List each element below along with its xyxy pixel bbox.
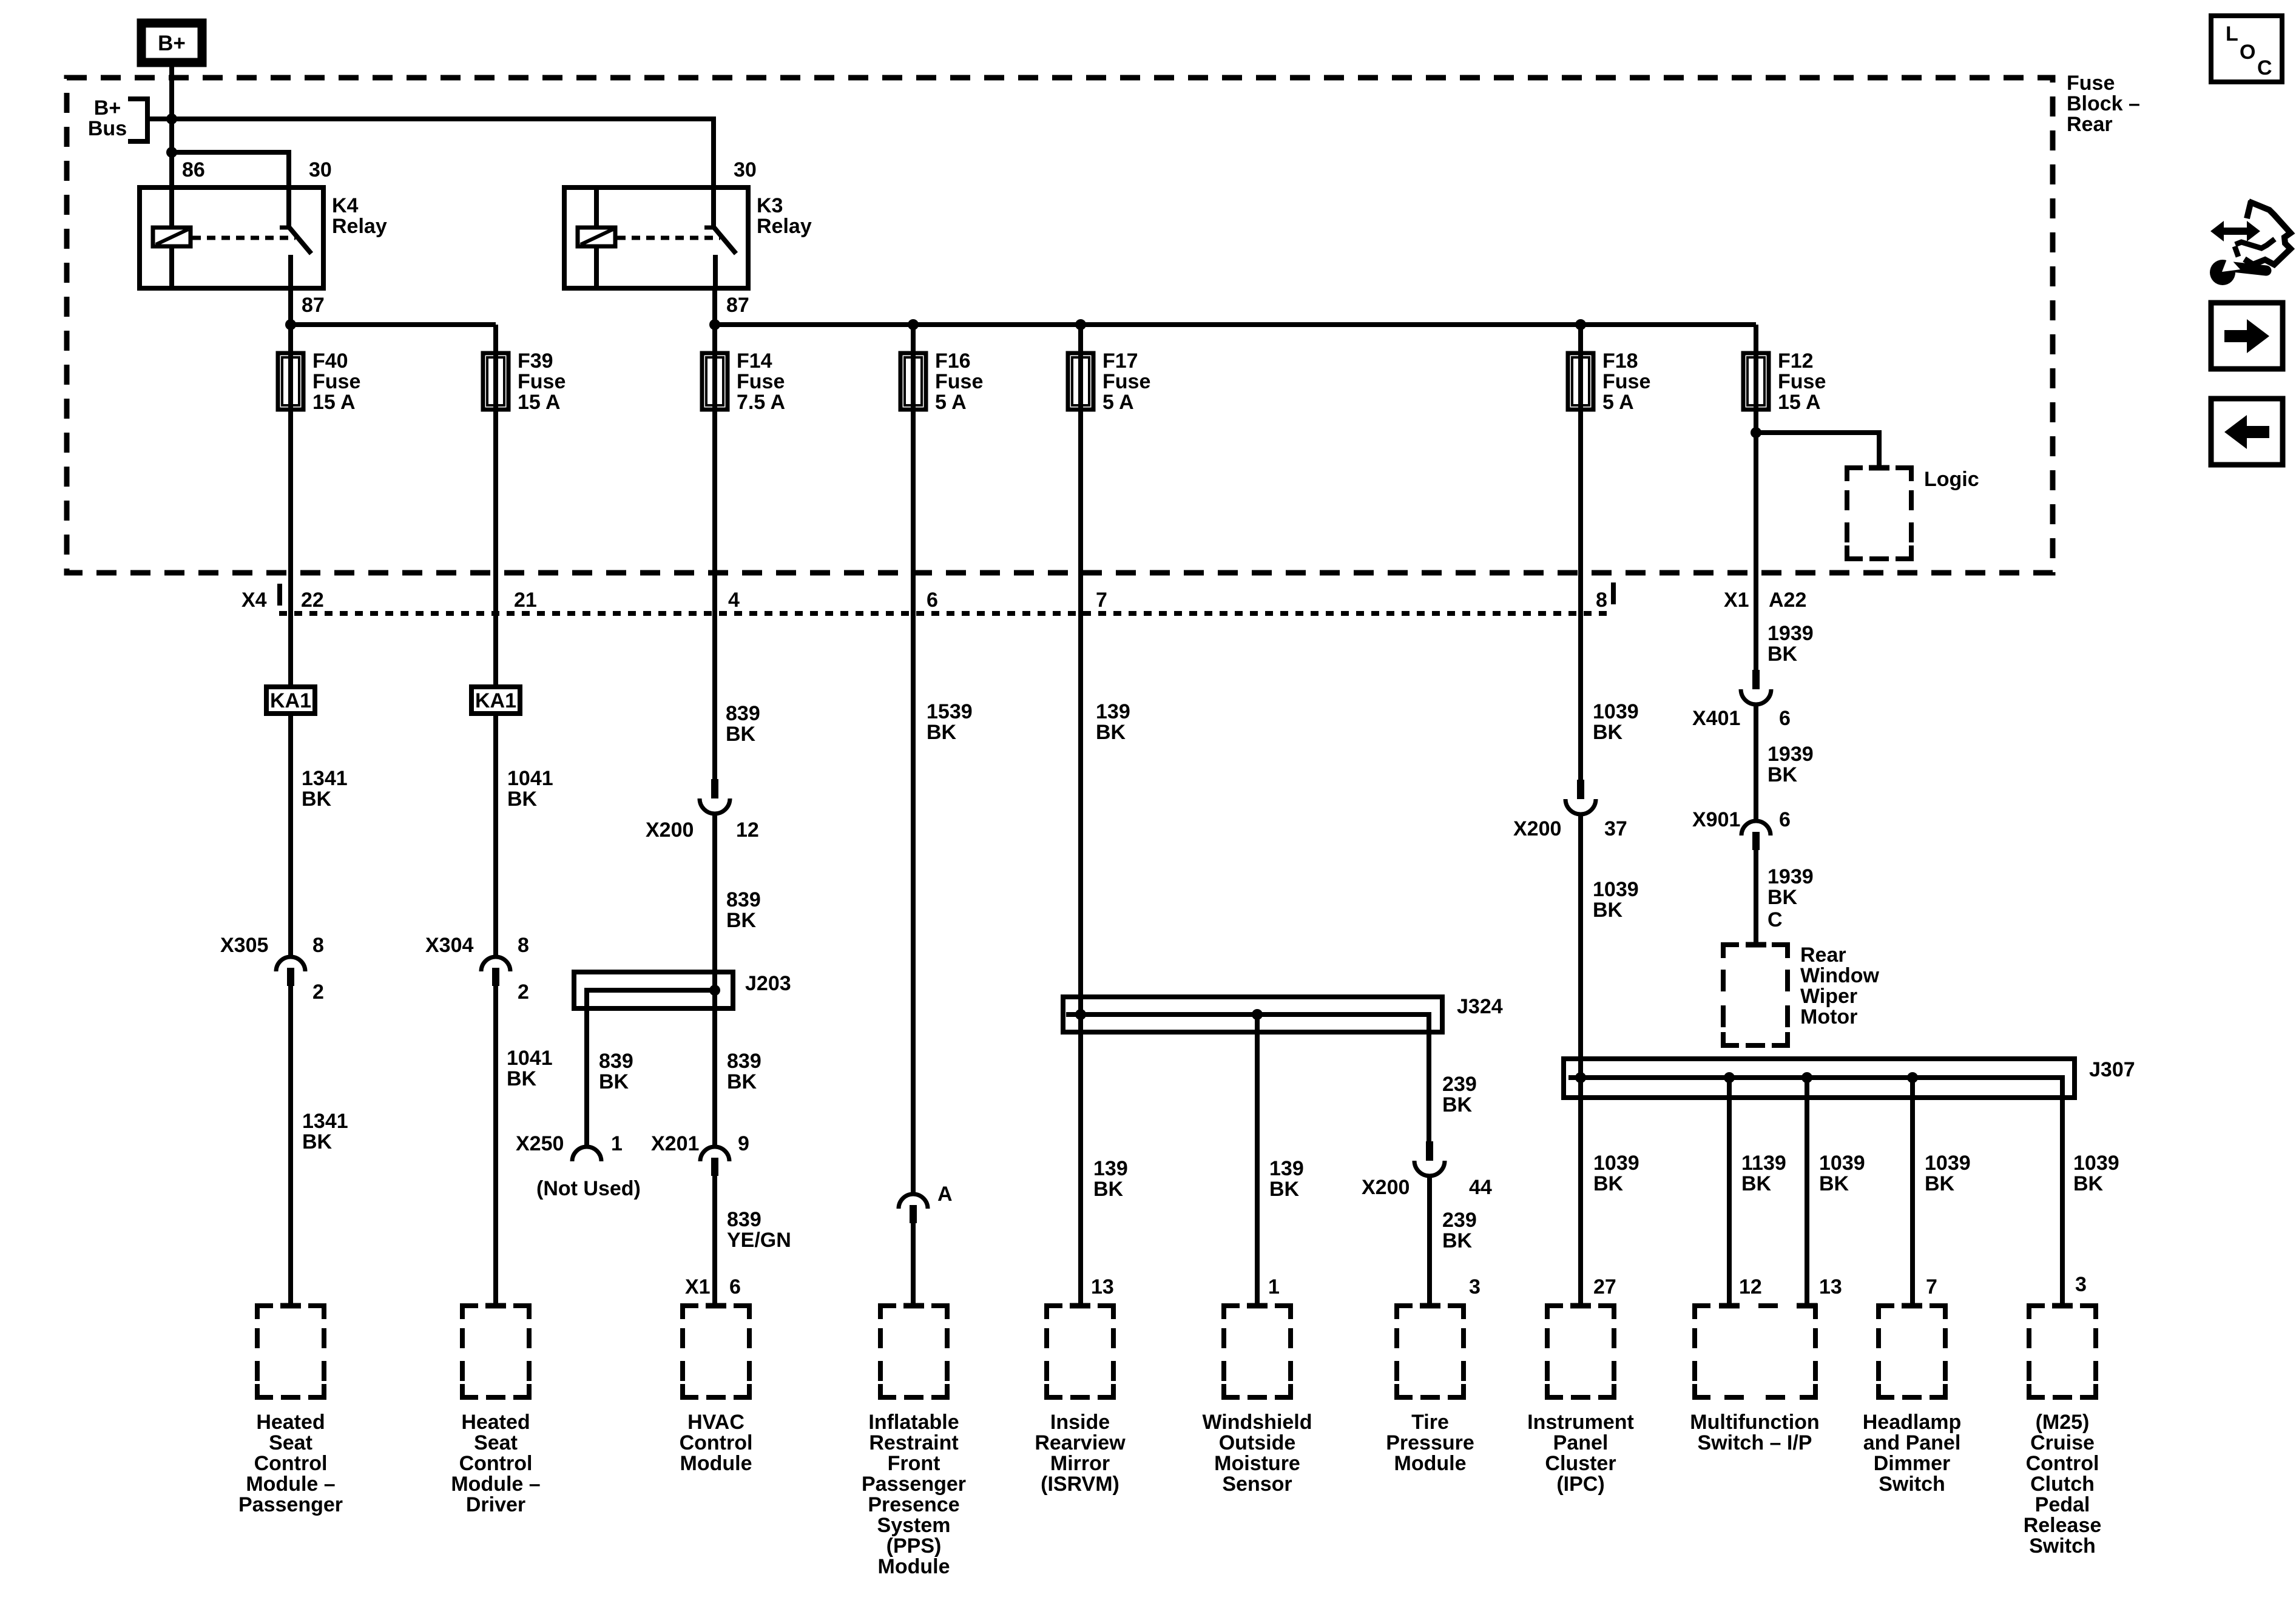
splice connector X200 pin 37 bbox=[1565, 780, 1596, 814]
junction dot J324 ISRVM bbox=[1075, 1009, 1086, 1020]
svg-text:3: 3 bbox=[1469, 1275, 1481, 1298]
wire J203 branch to X250 bbox=[587, 990, 715, 1147]
svg-text:O: O bbox=[2240, 41, 2255, 64]
B+ power terminal bbox=[141, 23, 202, 62]
svg-text:X201: X201 bbox=[651, 1132, 699, 1155]
wire drop to K3 pin 30 bbox=[711, 116, 716, 190]
svg-text:X200: X200 bbox=[1362, 1176, 1410, 1199]
wire bracket to bus bbox=[147, 116, 172, 121]
svg-text:239BK: 239BK bbox=[1442, 1209, 1477, 1252]
svg-text:J324: J324 bbox=[1457, 995, 1503, 1018]
junction dot J307 multifunction 13 bbox=[1801, 1072, 1812, 1083]
svg-text:8: 8 bbox=[1596, 589, 1607, 612]
cruise control clutch pedal release switch box bbox=[2029, 1306, 2096, 1397]
junction dot J307 IPC bbox=[1575, 1072, 1586, 1083]
wire 139 BK to moisture sensor bbox=[1255, 1014, 1260, 1306]
wire branch to K4 pin 30 bbox=[172, 152, 289, 190]
wire K4 pin 87 through F40 to X305 bbox=[288, 288, 293, 957]
svg-text:1: 1 bbox=[611, 1132, 623, 1155]
headlamp and panel dimmer switch box bbox=[1879, 1306, 1945, 1397]
wire 839 BK middle bbox=[712, 814, 717, 1147]
svg-text:87: 87 bbox=[726, 294, 749, 317]
fuse F16 bbox=[900, 353, 926, 410]
svg-text:KA1: KA1 bbox=[475, 689, 516, 712]
svg-text:30: 30 bbox=[734, 158, 757, 181]
svg-text:839BK: 839BK bbox=[599, 1050, 633, 1093]
in-line connector KA1 (driver) bbox=[471, 687, 520, 714]
svg-text:139BK: 139BK bbox=[1093, 1157, 1128, 1201]
svg-text:44: 44 bbox=[1469, 1176, 1492, 1199]
wire F12 1939 BK to X401 bbox=[1754, 325, 1758, 670]
fuse F18 bbox=[1568, 353, 1593, 410]
LOC icon box bbox=[2211, 16, 2282, 82]
junction dot B+ bus bbox=[166, 113, 177, 124]
heated seat control module - passenger box bbox=[257, 1306, 324, 1397]
svg-text:X200: X200 bbox=[1513, 817, 1561, 840]
junction dot J307 multifunction 12 bbox=[1724, 1072, 1735, 1083]
rear window wiper motor box bbox=[1723, 945, 1788, 1045]
svg-text:8: 8 bbox=[518, 934, 529, 957]
svg-text:MultifunctionSwitch – I/P: MultifunctionSwitch – I/P bbox=[1690, 1411, 1819, 1454]
junction dot J203 bbox=[709, 985, 720, 996]
svg-text:21: 21 bbox=[514, 589, 537, 612]
wire 1939 BK X401 to X901 bbox=[1754, 704, 1758, 821]
B+ bus bracket bbox=[128, 99, 147, 141]
svg-text:9: 9 bbox=[738, 1132, 749, 1155]
splice connector X200 pin 12 bbox=[700, 779, 730, 814]
svg-text:X304: X304 bbox=[425, 934, 473, 957]
svg-text:139BK: 139BK bbox=[1096, 700, 1130, 744]
splice connector X201 bbox=[700, 1147, 729, 1176]
wire 1039 BK to IPC bbox=[1578, 814, 1583, 1306]
svg-text:139BK: 139BK bbox=[1269, 1157, 1304, 1201]
wire fuse bus F14-F12 bbox=[715, 322, 1756, 327]
svg-text:839BK: 839BK bbox=[726, 888, 761, 932]
wire K3 pin 87 through F14 to X200-12 bbox=[712, 288, 717, 779]
tire pressure module box bbox=[1397, 1306, 1464, 1397]
svg-text:J307: J307 bbox=[2089, 1058, 2135, 1081]
svg-text:X901: X901 bbox=[1692, 808, 1740, 831]
logic dashed box bbox=[1847, 468, 1911, 559]
svg-text:27: 27 bbox=[1593, 1275, 1616, 1298]
svg-text:86: 86 bbox=[182, 158, 205, 181]
svg-text:KA1: KA1 bbox=[270, 689, 311, 712]
wire to PPS module bbox=[911, 1223, 916, 1306]
diagnostic hand tool icon bbox=[2210, 201, 2291, 285]
svg-text:8: 8 bbox=[312, 934, 324, 957]
fuse F40 bbox=[278, 353, 303, 410]
svg-text:12: 12 bbox=[736, 819, 759, 842]
heated seat control module - driver box bbox=[462, 1306, 529, 1397]
svg-text:J203: J203 bbox=[745, 972, 791, 995]
svg-text:13: 13 bbox=[1091, 1275, 1114, 1298]
svg-text:239BK: 239BK bbox=[1442, 1073, 1477, 1116]
svg-text:A: A bbox=[937, 1183, 953, 1206]
wire F17 139 BK to ISRVM bbox=[1078, 325, 1083, 1306]
splice connector X304 bbox=[481, 957, 510, 986]
svg-text:(Not Used): (Not Used) bbox=[536, 1177, 641, 1200]
wire 1041 BK to module bbox=[493, 986, 498, 1306]
svg-text:4: 4 bbox=[728, 589, 740, 612]
junction dot F17 bbox=[1075, 319, 1086, 330]
wire 1039 BK to headlamp switch bbox=[1910, 1078, 1915, 1306]
wire J324 bus and 239 BK drop bbox=[1066, 1014, 1429, 1141]
junction block J324 bbox=[1063, 997, 1442, 1032]
splice connector X305 bbox=[276, 957, 305, 986]
junction dot K4 branch bbox=[166, 147, 177, 158]
fuse F17 bbox=[1068, 353, 1093, 410]
svg-text:13: 13 bbox=[1819, 1275, 1842, 1298]
wire to logic bbox=[1756, 433, 1879, 468]
inflatable restraint PPS module box bbox=[880, 1306, 947, 1397]
svg-text:B+: B+ bbox=[158, 32, 186, 55]
wire F18 1039 BK to X200-37 bbox=[1578, 325, 1583, 780]
wire 1341 BK to module bbox=[288, 986, 293, 1306]
wire 1139 BK to multifunction 12 bbox=[1727, 1078, 1732, 1306]
wire 1939 BK X901 to wiper motor bbox=[1754, 850, 1758, 945]
svg-text:22: 22 bbox=[301, 589, 324, 612]
wire F39 through fuse to X304 bbox=[493, 325, 498, 957]
svg-text:30: 30 bbox=[309, 158, 332, 181]
connector X4 left tick bbox=[277, 584, 282, 606]
svg-text:2: 2 bbox=[312, 981, 324, 1004]
wire 839 YE/GN to HVAC bbox=[712, 1176, 717, 1306]
splice connector X901 bbox=[1741, 821, 1771, 850]
svg-text:X250: X250 bbox=[516, 1132, 564, 1155]
svg-text:X305: X305 bbox=[220, 934, 268, 957]
svg-text:2: 2 bbox=[518, 981, 529, 1004]
splice connector X250 (not used) bbox=[572, 1147, 601, 1161]
svg-text:6: 6 bbox=[1779, 808, 1791, 831]
wire F16 1539 BK to splice A bbox=[911, 325, 916, 1194]
svg-text:87: 87 bbox=[302, 294, 325, 317]
junction block J203 bbox=[574, 972, 733, 1008]
windshield outside moisture sensor box bbox=[1224, 1306, 1291, 1397]
instrument panel cluster box bbox=[1547, 1306, 1614, 1397]
svg-text:7: 7 bbox=[1926, 1275, 1937, 1298]
connector X4 right tick bbox=[1611, 582, 1616, 604]
svg-text:6: 6 bbox=[729, 1275, 741, 1298]
splice A bbox=[899, 1194, 928, 1223]
svg-text:X1: X1 bbox=[685, 1275, 711, 1298]
svg-text:6: 6 bbox=[1779, 707, 1791, 730]
svg-text:3: 3 bbox=[2075, 1273, 2087, 1296]
HVAC control module box bbox=[683, 1306, 749, 1397]
in-line connector KA1 (passenger) bbox=[266, 687, 315, 714]
svg-text:HVACControlModule: HVACControlModule bbox=[680, 1411, 753, 1475]
fuse F14 bbox=[702, 353, 728, 410]
svg-text:1: 1 bbox=[1268, 1275, 1280, 1298]
svg-text:X200: X200 bbox=[646, 819, 694, 842]
wire J307 bus and cruise drop bbox=[1568, 1078, 2062, 1306]
svg-text:Logic: Logic bbox=[1924, 468, 1979, 491]
wire 1039 BK to multifunction 13 bbox=[1805, 1078, 1809, 1306]
svg-text:C: C bbox=[2257, 56, 2272, 79]
junction dot J324 sensor bbox=[1252, 1009, 1263, 1020]
junction dot J307 headlamp bbox=[1907, 1072, 1918, 1083]
junction dot F14 bbox=[709, 319, 720, 330]
junction dot F40/F39 bbox=[285, 319, 296, 330]
relay K3 bbox=[564, 187, 748, 288]
fuse F39 bbox=[483, 353, 508, 410]
svg-text:A22: A22 bbox=[1769, 589, 1806, 612]
junction dot logic branch bbox=[1751, 427, 1761, 438]
svg-text:839BK: 839BK bbox=[727, 1050, 761, 1093]
svg-text:839BK: 839BK bbox=[726, 702, 760, 746]
svg-text:7: 7 bbox=[1096, 589, 1107, 612]
svg-text:6: 6 bbox=[927, 589, 938, 612]
svg-text:12: 12 bbox=[1739, 1275, 1762, 1298]
back arrow icon bbox=[2211, 399, 2283, 465]
fuse block rear dashed border bbox=[67, 78, 2053, 573]
relay K4 bbox=[140, 187, 323, 288]
junction block J307 bbox=[1564, 1059, 2075, 1098]
wire 239 BK to tire module bbox=[1427, 1176, 1432, 1306]
wire B+ feed down to K4 coil bbox=[169, 64, 174, 228]
inside rearview mirror box bbox=[1047, 1306, 1113, 1397]
connector X4 dashed line bbox=[279, 611, 1614, 616]
svg-text:X401: X401 bbox=[1692, 707, 1740, 730]
svg-text:X1: X1 bbox=[1724, 589, 1749, 612]
svg-text:L: L bbox=[2226, 22, 2238, 46]
multifunction switch box bbox=[1695, 1306, 1817, 1397]
splice connector X200 pin 44 bbox=[1414, 1141, 1445, 1176]
junction dot F18 bbox=[1575, 319, 1586, 330]
fuse F12 bbox=[1743, 353, 1769, 410]
junction dot F16 bbox=[908, 319, 919, 330]
wire bus to F39 bbox=[291, 322, 496, 327]
wire B+ bus horizontal bbox=[146, 116, 716, 121]
svg-text:X4: X4 bbox=[241, 589, 267, 612]
svg-text:C: C bbox=[1768, 908, 1783, 931]
splice connector X401 bbox=[1741, 670, 1771, 704]
forward arrow icon bbox=[2211, 303, 2283, 369]
svg-text:37: 37 bbox=[1604, 817, 1627, 840]
svg-text:(M25)CruiseControlClutchPedalR: (M25)CruiseControlClutchPedalReleaseSwit… bbox=[2024, 1411, 2102, 1558]
